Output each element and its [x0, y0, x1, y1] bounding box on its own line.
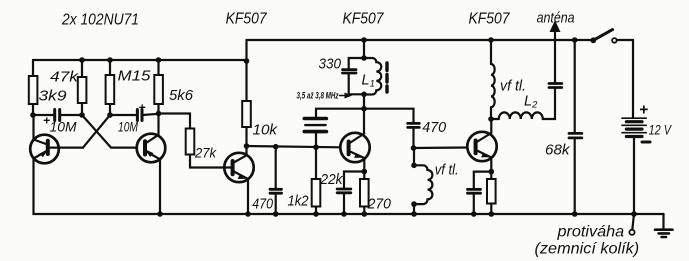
ground symbol — [655, 214, 673, 237]
terminal protivaha (open circle) — [629, 214, 634, 235]
inductor L1 (tank coil) — [364, 58, 381, 95]
resistor Q5 emitter — [487, 172, 496, 214]
junction dot: junction rail riser / 10k — [244, 58, 250, 64]
svg-text:M15: M15 — [118, 69, 152, 85]
transistor Q4 KF507 oscillator — [340, 133, 369, 172]
capacitor 22k (emitter bypass) — [337, 189, 351, 214]
junction dot: junction 68k ground — [572, 211, 578, 217]
wire top rail left section — [33, 59, 247, 61]
wire Q1 base to M15 node (cross coupling) — [83, 115, 110, 148]
svg-text:KF507: KF507 — [343, 11, 385, 28]
switch — [593, 30, 633, 43]
transistor Q3 KF507 — [224, 146, 253, 214]
antenna arrow — [550, 22, 559, 32]
junction dot: junction 68k rail — [572, 37, 578, 43]
label minus battery — [642, 141, 650, 144]
resistor 270 — [360, 172, 369, 215]
wire coupling node to Q5 base — [414, 146, 468, 149]
capacitor 470 (collector coupling to ground) — [270, 146, 282, 214]
junction dot: node Q5 collector / L2 — [488, 116, 494, 122]
svg-text:330: 330 — [319, 56, 342, 73]
svg-text:47k: 47k — [50, 70, 79, 86]
resistor M15 — [106, 60, 115, 115]
junction dot: junction tank riser rail — [361, 37, 367, 43]
wire Q4 emitter node — [344, 172, 364, 189]
svg-text:5k6: 5k6 — [169, 88, 194, 104]
junction dot: node tank top — [361, 55, 367, 61]
junction dot: junction choke bottom — [411, 201, 417, 207]
svg-text:3,5 až 3,8 MHz: 3,5 až 3,8 MHz — [297, 91, 339, 101]
svg-text:10M: 10M — [50, 119, 77, 135]
svg-text:vf tl.: vf tl. — [435, 163, 459, 179]
inductor vf tl. (choke to ground) — [414, 148, 432, 214]
junction dot: junction M15 top rail — [107, 57, 113, 63]
transistor Q5 KF507 output — [467, 119, 496, 172]
junction dot: node tank bottom — [361, 92, 367, 98]
junction dot: junction Q5 emitter resistor ground — [489, 211, 495, 217]
junction dot: junction 5k6 top rail — [156, 57, 162, 63]
junction dot: junction Q5 bypass cap ground — [471, 211, 477, 217]
resistor 1k2 — [312, 147, 321, 214]
junction dot: junction 1k2 ground — [313, 211, 319, 217]
svg-text:10M: 10M — [118, 119, 138, 135]
wire top rail right section — [247, 39, 593, 41]
resistor 10k — [242, 61, 251, 146]
inductor L2 (antenna coupling) — [491, 88, 555, 119]
junction dot: switch pivot — [590, 37, 596, 43]
svg-text:+: + — [639, 102, 648, 119]
wire tank riser from rail — [363, 40, 365, 58]
capacitor Q5 emitter bypass — [468, 189, 481, 214]
svg-text:68k: 68k — [545, 143, 570, 159]
capacitor 470 (coupling to antenna stage) — [408, 123, 420, 148]
junction dot: node Q3 collector / 10k — [244, 143, 250, 149]
junction dot: junction choke ground — [411, 211, 417, 217]
inductor vf tl. (collector choke) — [491, 40, 495, 119]
junction dot: junction 47k top rail — [79, 57, 85, 63]
svg-text:(zemnicí kolík): (zemnicí kolík) — [535, 241, 640, 258]
junction dot: node Q5 base / choke — [411, 145, 417, 151]
svg-text:270: 270 — [367, 197, 391, 213]
svg-text:10k: 10k — [253, 123, 278, 139]
resistor 47k — [78, 60, 87, 115]
junction dot: node M15 bottom / cap 10M — [107, 112, 113, 118]
wire rail riser at x=246 — [245, 40, 247, 61]
capacitor 10M right — [110, 110, 159, 121]
junction dot: junction 470 cap ground — [273, 211, 279, 217]
junction dot: junction 270 ground — [362, 211, 368, 217]
junction dot: junction 22k cap ground — [341, 211, 347, 217]
wire 5k6 node to 27k — [159, 114, 191, 129]
wire tank bottom to Q4 collector — [363, 94, 365, 133]
wire Q5 emitter node — [474, 172, 492, 189]
capacitor 330 (tank) — [343, 58, 365, 94]
svg-text:+: + — [139, 101, 146, 115]
svg-text:12 V: 12 V — [649, 122, 673, 138]
svg-text:27k: 27k — [194, 146, 217, 161]
svg-text:KF507: KF507 — [469, 11, 511, 28]
trimmer capacitor 3.5-3.8 MHz — [304, 109, 364, 148]
capacitor 68k (supply decoupling) — [569, 40, 582, 214]
junction dot: node 47k bottom / cap 10M — [79, 112, 85, 118]
junction dot: junction collector choke rail — [488, 37, 494, 43]
junction dot: junction Q3 emitter ground — [245, 211, 251, 217]
svg-text:KF507: KF507 — [226, 11, 268, 28]
junction dot: node Q4 base / 1k2 / trimmer — [313, 144, 319, 150]
capacitor antenna series — [549, 30, 562, 88]
svg-text:anténa: anténa — [537, 10, 575, 27]
junction dot: junction Q2 emitter ground — [157, 211, 163, 217]
svg-text:470: 470 — [422, 120, 446, 136]
junction dot: junction battery ground — [631, 211, 637, 217]
svg-text:vf tl.: vf tl. — [500, 78, 526, 95]
junction dot: node Q2 collector / 5k6 — [156, 111, 162, 117]
svg-text:1k2: 1k2 — [288, 194, 309, 210]
junction dot: node 470 cap top — [273, 144, 279, 150]
svg-text:protiváha: protiváha — [556, 224, 624, 241]
junction dot: node Q4 emitter — [362, 169, 368, 175]
wire collector bus to Q4 base — [247, 146, 341, 147]
transistor Q1 102NU71 — [30, 115, 83, 163]
resistor 5k6 — [154, 60, 163, 114]
junction dot: junction choke top — [411, 163, 417, 169]
arrow for 3,5 az 3,8 MHz — [340, 93, 352, 98]
svg-text:22k: 22k — [320, 172, 344, 188]
core of L1 (dashed) — [385, 63, 388, 92]
capacitor 10M left — [33, 110, 82, 121]
transistor Q2 102NU71 — [137, 114, 166, 215]
junction dot: node tank tap — [361, 106, 367, 112]
battery 12V — [622, 40, 646, 214]
wire tank tap to 470 coupling cap — [364, 109, 414, 123]
svg-text:470: 470 — [252, 197, 273, 213]
svg-text:2x 102NU71: 2x 102NU71 — [61, 12, 139, 29]
wire ground rail — [34, 159, 664, 214]
resistor 27k — [186, 129, 233, 168]
resistor 3k9 — [29, 60, 38, 115]
wire Q2 base to 47k node (cross coupling) — [82, 115, 137, 148]
junction dot: node Q5 emitter — [489, 169, 495, 175]
svg-text:3k9: 3k9 — [39, 89, 67, 105]
junction dot: node Q1 collector / 3k9 — [30, 112, 36, 118]
